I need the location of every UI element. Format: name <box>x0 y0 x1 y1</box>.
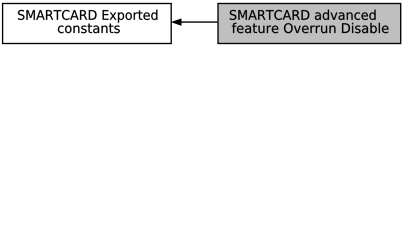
label Node2 line 1: "SMARTCARD Exported" <box>18 10 157 23</box>
arrowhead pointing at Node2 <box>172 19 182 26</box>
label Node1 line 2: "feature Overrun Disable" <box>232 23 389 33</box>
node Node2: "SMARTCARD Exported constants" box <box>3 4 172 44</box>
label Node1 line 1: "SMARTCARD advanced" <box>230 10 376 20</box>
label Node2 line 2: "constants" <box>58 24 120 34</box>
node Node1: "SMARTCARD advanced feature Overrun Disable" box (current node, grey fill) <box>218 4 401 44</box>
wire: edge from Node1 to Node2 <box>181 21 217 23</box>
background <box>0 0 407 51</box>
